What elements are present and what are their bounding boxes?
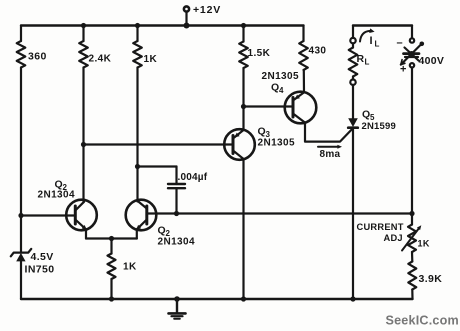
wire rail corner to 430	[302, 26, 304, 42]
SCR Q5 2N1599	[348, 109, 396, 133]
wire Q2a collector	[82, 145, 84, 202]
svg-text:L: L	[365, 58, 370, 67]
terminal RL bottom	[350, 80, 355, 85]
variable source B1 400V	[397, 37, 445, 76]
node dot rail/ground	[174, 296, 180, 302]
svg-text:2N1304: 2N1304	[38, 190, 75, 201]
transistor Q4 2N1305	[262, 71, 317, 123]
capacitor C1 .004uf	[168, 167, 208, 214]
node dot 2.4K/Q3-base/Q2-collector	[81, 142, 86, 147]
node dot rail/SCR	[350, 296, 355, 301]
watermark SeekIC.com	[386, 314, 459, 328]
wire left column mid	[20, 68, 22, 253]
node dot left/Q2 base	[18, 213, 23, 218]
wire 2.4K top	[82, 26, 84, 42]
wire right loop rail	[353, 24, 412, 26]
resistor R3 1K	[133, 41, 157, 68]
node dot rail/1K	[135, 23, 140, 28]
wire RL to SCR anode	[352, 85, 354, 118]
resistor R2 2.4K	[79, 41, 111, 68]
svg-text:1K: 1K	[123, 262, 137, 273]
svg-text:2N1305: 2N1305	[262, 71, 299, 82]
svg-text:L: L	[375, 40, 380, 49]
wire Q2b emitter	[136, 229, 138, 238]
node dot rail/Q3	[241, 296, 246, 301]
wire Q2b collector	[136, 167, 138, 202]
wire RL top	[352, 26, 354, 39]
wire Q2a base	[21, 214, 75, 216]
terminal RL top	[350, 38, 355, 43]
svg-text:ADJ: ADJ	[384, 233, 403, 243]
resistor R6 1K	[108, 239, 137, 300]
wire left column top	[20, 26, 22, 42]
power terminal +12V	[184, 4, 221, 26]
wire Q4 base	[244, 105, 294, 107]
svg-text:430: 430	[309, 46, 327, 57]
wire 400V top	[411, 26, 413, 39]
node dot 1.5K/Q4-base/Q3-emitter	[241, 104, 246, 109]
wire bottom rail	[21, 298, 413, 300]
svg-text:8ma: 8ma	[320, 149, 341, 160]
wire feedback Q2b base line	[147, 212, 412, 214]
wire cap top branch	[138, 165, 177, 167]
resistor R8 3.9K	[408, 252, 442, 299]
wire 1.5K to node	[242, 68, 244, 107]
svg-text:R: R	[357, 53, 365, 65]
resistor RL	[349, 43, 370, 79]
node dot emitters	[109, 236, 114, 241]
svg-text:Q: Q	[362, 109, 370, 121]
wire Q3 base	[84, 143, 234, 145]
svg-text:4.5V: 4.5V	[31, 251, 54, 263]
svg-text:1K: 1K	[418, 239, 430, 249]
node dot cap bottom	[174, 211, 179, 216]
terminal 400V bottom	[410, 63, 414, 67]
wire Q2a emitter	[85, 229, 87, 238]
svg-text:4: 4	[279, 86, 284, 95]
annotation arc IL	[360, 28, 380, 48]
ground	[169, 299, 186, 319]
svg-text:2N1599: 2N1599	[362, 121, 396, 132]
node dot rail/1.5K	[241, 23, 246, 28]
wire 430 to Q4 emitter	[303, 70, 305, 92]
wire emitter join	[86, 237, 137, 239]
svg-text:3.9K: 3.9K	[419, 273, 443, 285]
svg-text:I: I	[370, 35, 373, 47]
node dot divider top	[409, 211, 414, 216]
node dot rail/2.4K	[81, 23, 86, 28]
svg-text:360: 360	[28, 51, 47, 63]
node dot rail/+12V	[184, 23, 190, 29]
wire top rail	[21, 24, 304, 26]
svg-text:1K: 1K	[144, 54, 158, 65]
node dot rail/R6	[109, 296, 114, 301]
svg-text:2N1304: 2N1304	[158, 237, 195, 248]
svg-text:.004µf: .004µf	[178, 172, 208, 183]
svg-text:Q: Q	[158, 225, 166, 237]
wire 1.5K top	[242, 26, 244, 42]
wire 1K top	[136, 26, 138, 42]
svg-text:CURRENT: CURRENT	[357, 222, 404, 232]
svg-text:1.5K: 1.5K	[248, 48, 271, 59]
resistor R5 430	[299, 41, 326, 70]
wire SCR cathode down	[352, 128, 354, 299]
potentiometer R7 1K CURRENT ADJ	[357, 214, 430, 253]
zener diode CR1 4.5V 1N750	[11, 249, 55, 299]
svg-text:–: –	[397, 37, 403, 49]
wire Q4 collector to SCR gate	[305, 123, 352, 142]
transistor Q2a 2N1304	[38, 179, 97, 231]
wire Q3 collector down	[242, 159, 244, 299]
terminal 400V top	[410, 38, 414, 42]
annotation arrow 8ma	[318, 145, 342, 160]
node dot 1K/cap/Q2b-collector	[135, 164, 140, 169]
svg-text:2.4K: 2.4K	[89, 54, 112, 65]
resistor R4 1.5K	[239, 42, 270, 69]
svg-text:400V: 400V	[419, 55, 445, 67]
transistor Q3 2N1305	[224, 126, 295, 160]
svg-text:+: +	[400, 64, 406, 76]
transistor Q2b 2N1304	[126, 200, 195, 248]
svg-text:IN750: IN750	[25, 264, 55, 276]
wire Q3 emitter up	[242, 107, 244, 131]
wire 1K to cap node	[136, 68, 138, 167]
svg-text:2N1305: 2N1305	[258, 138, 295, 149]
svg-text:+12V: +12V	[193, 4, 221, 16]
wire 400V to divider	[411, 68, 413, 214]
resistor R1 360	[17, 41, 47, 68]
wire 2.4K to node	[82, 68, 84, 145]
svg-text:SeekIC.com: SeekIC.com	[386, 314, 459, 328]
